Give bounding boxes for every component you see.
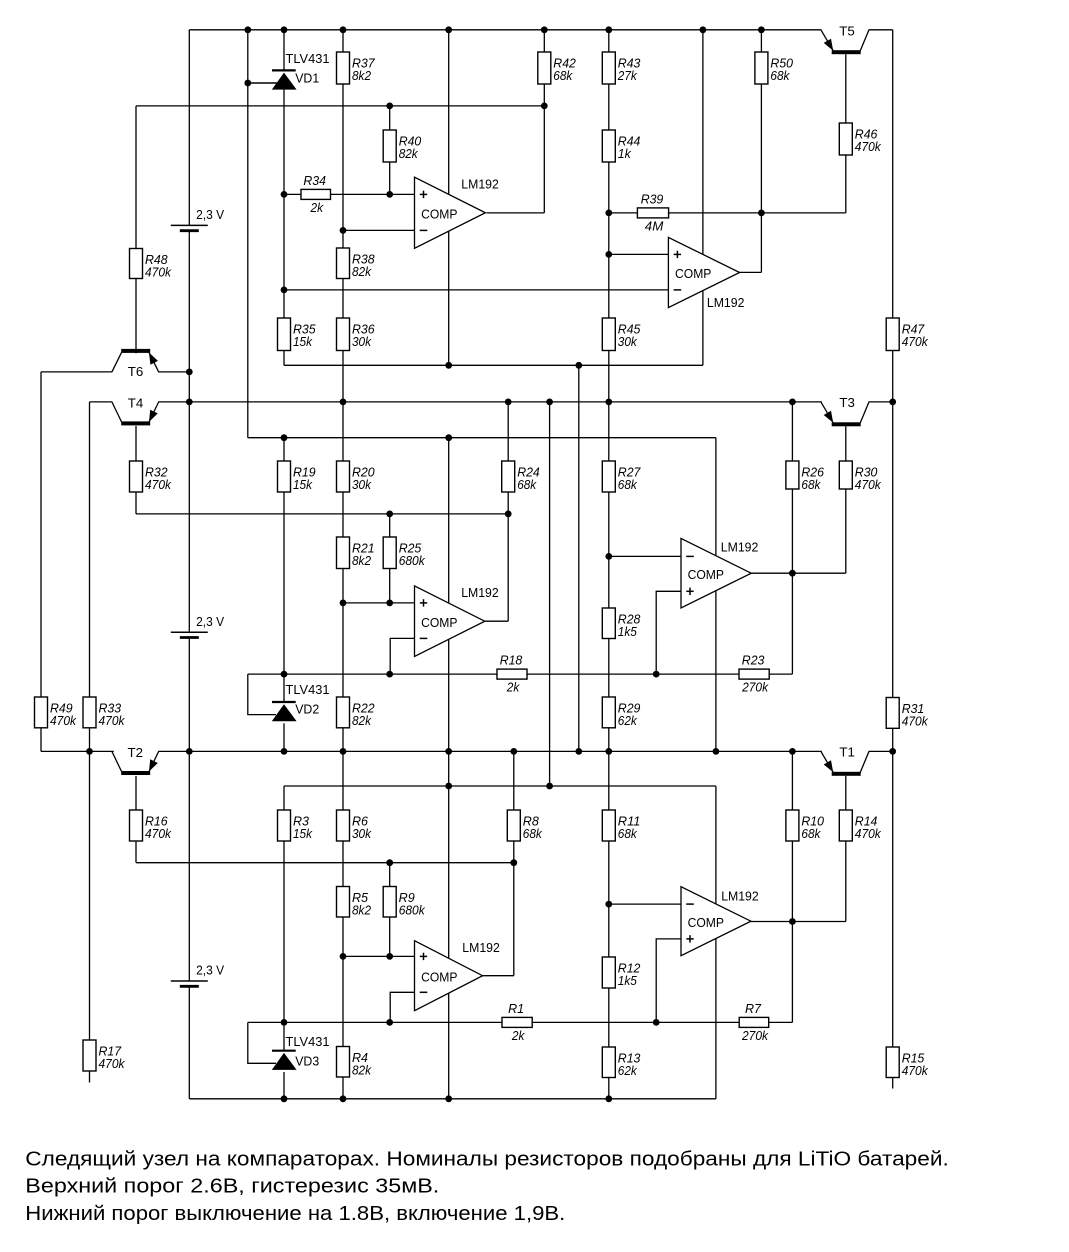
svg-text:470k: 470k: [855, 478, 882, 492]
svg-text:2k: 2k: [310, 201, 324, 215]
wire: COMP2 plus input line: [609, 253, 669, 255]
svg-text:68k: 68k: [770, 69, 790, 83]
wire: COMP bot-right minus input line: [609, 903, 681, 905]
svg-text:30k: 30k: [618, 335, 638, 349]
op-amp comparator U6 (bottom-right LM192): [681, 887, 759, 956]
svg-text:680k: 680k: [399, 554, 426, 568]
resistor R24: [502, 461, 540, 492]
svg-text:T1: T1: [839, 745, 855, 760]
wire: x549 drop (T4 row to bottom feedback line): [549, 402, 551, 786]
wire: reference line y1022 left segment (VD3 net to R1): [248, 1021, 502, 1023]
wire: COMP bot output riser: [513, 863, 515, 976]
junction dots on top bus: [244, 26, 764, 33]
wire: mid feedback drop x716 to T2 row: [715, 438, 717, 752]
junction dots on reference line y674: [281, 671, 660, 678]
junction dots on R39 output node line: [605, 210, 764, 217]
svg-text:8k2: 8k2: [352, 903, 371, 917]
transistor T1: [821, 745, 869, 776]
wire: VD3 anode to ground rail: [283, 1072, 285, 1099]
wire: R27 top from T4 row: [608, 402, 610, 461]
wire: T6 collector stub: [135, 349, 137, 353]
resistor R31: [886, 698, 928, 729]
svg-text:LM192: LM192: [461, 585, 499, 600]
svg-text:68k: 68k: [618, 827, 638, 841]
svg-text:62k: 62k: [618, 714, 638, 728]
resistor R4: [337, 1047, 372, 1078]
junction dot COMP1 minus tap: [340, 227, 347, 234]
resistor R20: [337, 461, 375, 492]
wire: x449 main drop (mid feedback to ground rail): [448, 438, 450, 1099]
svg-text:R34: R34: [303, 174, 326, 188]
junction dots on T2 row: [86, 748, 896, 755]
resistor R38: [337, 248, 375, 279]
resistor R26: [786, 461, 824, 492]
junction dot T6 emitter node: [186, 369, 193, 376]
wire: R16 bottom to y863 corner: [135, 841, 137, 863]
wire: COMP bot-right output line: [751, 921, 846, 923]
wire: R35 bottom into y365 line: [283, 351, 285, 366]
wire: T6 emitter wire to battery column: [158, 371, 189, 373]
svg-text:VD2: VD2: [295, 702, 319, 717]
resistor R48: [130, 249, 172, 280]
resistor R29: [602, 697, 640, 728]
resistor R25: [383, 537, 425, 569]
junction dots on ground rail: [281, 1095, 613, 1102]
wire: top bus right segment to collector rail: [869, 29, 893, 31]
wire: T4 emitter node down to B2: [188, 402, 190, 632]
wire: R46 bottom riser to R39 line: [845, 155, 847, 213]
resistor R43: [602, 52, 640, 84]
wire: R17 bottom stub: [89, 1071, 91, 1083]
wire: COMP mid output riser: [507, 514, 509, 621]
svg-text:470k: 470k: [99, 1057, 126, 1071]
wire: R27 bottom to minus node: [608, 492, 610, 556]
resistor R49: [35, 697, 77, 728]
wire: T4 row (cell 2 +): [158, 401, 822, 403]
resistor R47: [886, 318, 928, 351]
svg-text:COMP: COMP: [688, 567, 724, 582]
wire: R45 bottom to T4 row: [608, 351, 610, 402]
resistor R11: [602, 810, 640, 841]
svg-text:68k: 68k: [801, 827, 821, 841]
wire: COMP1 minus input line: [343, 229, 415, 231]
wire: battery column top (bus corner down to B1): [188, 30, 190, 226]
svg-text:LM192: LM192: [707, 295, 745, 310]
wire: COMP mid minus elbow: [390, 638, 414, 674]
wire: COMP2 output corner riser: [760, 213, 762, 273]
svg-text:2,3 V: 2,3 V: [196, 614, 224, 629]
wire: x579 drop from y365 to T2 row: [578, 365, 580, 751]
svg-text:R39: R39: [641, 192, 664, 206]
wire: T1 base to R14: [845, 776, 847, 810]
resistor R7: [739, 1002, 769, 1043]
resistor R21: [337, 537, 375, 569]
wire: COMP1 plus input line from VD1 anode node: [284, 193, 301, 195]
svg-text:680k: 680k: [399, 903, 426, 917]
wire: T2 collector to R16: [135, 776, 137, 810]
resistor R33: [83, 697, 125, 728]
svg-text:Нижний порог выключение на 1.8: Нижний порог выключение на 1.8В, включен…: [25, 1202, 565, 1225]
wire: COMP bot minus elbow: [390, 992, 414, 1022]
TLV431 shunt reference VD1: [248, 51, 330, 90]
resistor R13: [602, 1047, 640, 1078]
op-amp comparator U2 (top-right LM192): [668, 237, 744, 310]
wire: y514 node line: [136, 513, 508, 515]
wire: T4 collector to R32: [135, 426, 137, 461]
transistor T4: [112, 396, 159, 426]
wire: R34 to COMP1 plus input: [331, 193, 415, 195]
svg-text:8k2: 8k2: [352, 69, 371, 83]
resistor R40: [383, 130, 421, 162]
svg-text:470k: 470k: [145, 478, 172, 492]
wire: node line y105 from R48 column to R42 column: [136, 105, 544, 107]
wire: T4 row right segment (T3 collector to right rail): [869, 401, 893, 403]
junction dot COMP2 plus tap: [605, 251, 612, 258]
wire: y1022 after R7 to corner: [769, 1021, 793, 1023]
svg-text:2k: 2k: [506, 681, 520, 695]
wire: R3 bottom to VD3 cathode node: [283, 841, 285, 1022]
junction dots on y863 node line: [386, 859, 517, 866]
wire: R40 bottom to plus input line: [389, 162, 391, 194]
battery B3 2,3 V: [171, 963, 225, 987]
junction dots on y365 line: [445, 362, 582, 369]
wire: VD1 ref column (bus to ref tap to mid feedback corner): [247, 30, 249, 438]
wire: R8 bottom to output node: [513, 841, 515, 863]
wire: COMP2 output stub: [740, 271, 762, 273]
resistor R27: [602, 461, 641, 492]
wire: R38 bottom to R36 top: [342, 279, 344, 319]
svg-text:2,3 V: 2,3 V: [196, 963, 224, 978]
svg-text:COMP: COMP: [421, 969, 457, 984]
wire: T2 row (cell 3 +): [41, 750, 114, 752]
wire: left rail 1 (T6 base to R49): [40, 372, 42, 697]
svg-text:68k: 68k: [801, 478, 821, 492]
junction dots on COMP mid plus line: [340, 600, 394, 607]
resistor R3: [278, 810, 313, 841]
wire: R4 bottom to ground rail: [342, 1077, 344, 1099]
wire: B3 minus down to ground rail corner: [188, 987, 190, 1099]
wire: R9 bottom to plus line: [389, 917, 391, 956]
resistor R42: [538, 52, 576, 84]
wire: R48 column riser: [135, 106, 137, 249]
wire: T5 base to R46: [845, 54, 847, 123]
wire: R49 bottom corner to T2 row: [40, 728, 42, 752]
wire: R13 bottom to ground rail: [608, 1078, 610, 1099]
wire: COMP1 output to corner: [487, 212, 545, 214]
resistor R34: [301, 174, 331, 215]
svg-text:30k: 30k: [352, 827, 372, 841]
op-amp comparator U1 (top-left LM192): [415, 176, 499, 248]
junction dots on COMP1 plus line: [281, 191, 394, 198]
transistor T6: [112, 349, 159, 379]
svg-text:470k: 470k: [902, 335, 929, 349]
battery B1 2,3 V: [171, 207, 225, 231]
wire: bottom feedback drop x716 to ground rail: [715, 786, 717, 1099]
wire: R5 bottom to plus node to R4 top: [342, 917, 344, 1047]
svg-text:COMP: COMP: [688, 915, 724, 930]
svg-text:470k: 470k: [855, 827, 882, 841]
wire: R30 bottom riser to output line: [845, 489, 847, 573]
resistor R36: [337, 318, 375, 351]
svg-text:VD3: VD3: [295, 1053, 319, 1068]
svg-text:68k: 68k: [523, 827, 543, 841]
wire: R11 top from T2 row: [608, 751, 610, 810]
resistor R50: [755, 52, 793, 84]
svg-text:82k: 82k: [399, 147, 419, 161]
wire: R25 hanger from y514: [389, 514, 391, 537]
wire: T3 base to R30: [845, 426, 847, 461]
wire: right rail T1 node down to R15: [892, 751, 894, 1047]
wire: COMP mid-right plus elbow: [656, 591, 681, 674]
wire: R32 bottom to y514 corner: [135, 492, 137, 514]
wire: minus node to R28 top: [608, 556, 610, 608]
wire: COMP bot-right plus elbow: [656, 939, 681, 1023]
wire: mid feedback top line y437: [248, 437, 716, 439]
svg-text:2,3 V: 2,3 V: [196, 207, 224, 222]
wire: R7 corner riser to output node: [791, 922, 793, 1023]
resistor R23: [739, 654, 769, 695]
wire: R3 top corner from y786: [283, 786, 285, 810]
wire: COMP bot plus input line: [343, 955, 415, 957]
resistor R39: [637, 192, 668, 233]
svg-text:2k: 2k: [511, 1029, 525, 1043]
resistor R22: [337, 697, 375, 728]
transistor T5: [821, 23, 869, 54]
wire: R6 top from T2 row: [342, 751, 344, 810]
resistor R37: [337, 52, 376, 84]
wire: reference line y674 left segment (VD2 net to R18): [248, 673, 497, 675]
wire: R10 hanger from T2 row: [791, 751, 793, 810]
resistor R28: [602, 608, 640, 639]
svg-text:TLV431: TLV431: [286, 1034, 330, 1049]
resistor R30: [839, 461, 881, 492]
wire: T6 base wire to left rail: [41, 371, 112, 373]
wire: R25 bottom to plus line: [389, 569, 391, 603]
op-amp comparator U4 (mid-right LM192): [681, 538, 758, 608]
svg-text:15k: 15k: [293, 827, 313, 841]
svg-text:470k: 470k: [902, 714, 929, 728]
resistor R17: [83, 1040, 125, 1071]
wire: R42 bottom through y105 node to COMP1 output corner: [543, 84, 545, 213]
junction dot COMP2 minus line at VD1 anode chain: [281, 287, 288, 294]
resistor R18: [497, 654, 527, 695]
op-amp comparator U5 (bottom-left LM192): [415, 940, 500, 1011]
wire: right rail T3 node down to R31: [892, 402, 894, 698]
wire: R6 bottom to R5 top: [342, 841, 344, 887]
svg-text:COMP: COMP: [675, 266, 711, 281]
resistor R9: [383, 887, 425, 918]
wire: COMP bot output horizontal: [483, 975, 514, 977]
resistor R1: [502, 1002, 532, 1043]
junction dots on T4 row: [186, 399, 896, 406]
wire: y1022 between R1 and R7: [532, 1021, 739, 1023]
svg-text:27k: 27k: [617, 69, 638, 83]
wire: R26 bottom to output node: [791, 489, 793, 573]
svg-text:COMP: COMP: [421, 206, 457, 221]
resistor R10: [786, 810, 824, 841]
resistor R15: [886, 1047, 928, 1078]
svg-text:LM192: LM192: [461, 176, 499, 191]
junction dots on COMP bot plus line: [340, 953, 394, 960]
op-amp comparator U3 (mid-left LM192): [415, 585, 499, 657]
wire: R33 node down to R17: [89, 751, 91, 1040]
svg-text:68k: 68k: [517, 478, 537, 492]
resistor R35: [278, 318, 316, 351]
resistor R45: [602, 318, 640, 351]
wire: T4 base wire to left rail 2: [90, 401, 113, 403]
wire: COMP mid-right minus input line: [609, 555, 681, 557]
wire: top supply bus (cell 1 +): [189, 29, 821, 31]
svg-text:T3: T3: [839, 395, 855, 410]
wire: x703 riser (bus down to y365 line): [702, 30, 704, 366]
svg-text:15k: 15k: [293, 335, 313, 349]
junction dots on reference line y1022: [281, 1019, 660, 1026]
wire: R50 bottom to R39 output node: [760, 84, 762, 213]
resistor R16: [130, 810, 172, 841]
wire: VD2 anode to T2 row: [283, 723, 285, 751]
svg-text:82k: 82k: [352, 714, 372, 728]
svg-text:270k: 270k: [741, 1029, 769, 1043]
svg-text:82k: 82k: [352, 1063, 372, 1077]
wire: VD1 cathode riser: [283, 30, 285, 71]
svg-text:8k2: 8k2: [352, 554, 371, 568]
wire: R10 bottom to output node: [791, 841, 793, 922]
svg-text:Следящий узел на компараторах.: Следящий узел на компараторах. Номиналы …: [25, 1147, 948, 1170]
wire: COMP mid-right output line: [751, 572, 846, 574]
svg-text:470k: 470k: [855, 140, 882, 154]
wire: bottom feedback line y786: [284, 785, 716, 787]
wire: R37 top lead: [342, 30, 344, 52]
junction dots on bottom feedback line y786: [445, 783, 553, 790]
wire: R9 hanger from y863: [389, 863, 391, 887]
wire: ground rail: [189, 1098, 716, 1100]
transistor T3: [821, 395, 869, 426]
svg-text:VD1: VD1: [295, 71, 319, 86]
wire: T2 row main segment: [158, 750, 822, 752]
wire: R37 bottom to COMP1 minus tap to R38: [342, 84, 344, 248]
wire: R50 top lead: [760, 30, 762, 52]
junction dots on y105 node line: [386, 103, 547, 110]
resistor R44: [602, 130, 640, 162]
junction dot VD1 ref tap: [244, 80, 251, 87]
wire: R15 bottom stub: [892, 1078, 894, 1089]
wire: R24 bottom to output node: [507, 492, 509, 514]
wire: R28 bottom to R29 top: [608, 639, 610, 698]
svg-text:LM192: LM192: [721, 540, 759, 555]
svg-text:LM192: LM192: [462, 940, 500, 955]
resistor R32: [130, 461, 172, 492]
resistor R6: [337, 810, 372, 841]
svg-text:T2: T2: [128, 745, 144, 760]
wire: COMP mid plus input line: [343, 602, 415, 604]
wire: B2 minus down to T2 emitter: [188, 638, 190, 752]
wire: R11 bottom to minus node: [608, 841, 610, 904]
wire: right rail top corner (T5 collector down): [892, 30, 894, 318]
battery B2 2,3 V: [171, 614, 225, 638]
junction dots on y514 node line: [386, 511, 511, 518]
svg-text:R18: R18: [500, 654, 523, 668]
svg-text:T4: T4: [128, 396, 144, 411]
resistor R12: [602, 957, 640, 988]
wire: COMP2 minus input line from VD1 anode chain: [284, 289, 668, 291]
wire: R43 top lead: [608, 30, 610, 52]
svg-text:1k5: 1k5: [618, 974, 637, 988]
wire: R39 left lead from R44 node: [609, 212, 638, 214]
svg-text:470k: 470k: [902, 1064, 929, 1078]
wire: R39 right lead to R50 node and R46 corner: [669, 212, 846, 214]
wire: R19 bottom to VD2 cathode node: [283, 492, 285, 674]
TLV431 shunt reference VD3: [248, 1022, 330, 1070]
svg-text:30k: 30k: [352, 335, 372, 349]
svg-text:COMP: COMP: [421, 615, 457, 630]
svg-text:TLV431: TLV431: [286, 682, 330, 697]
wire: R24 top hanger from T4 row: [507, 402, 509, 461]
wire: right rail R31 to T1 collector node: [892, 728, 894, 751]
svg-text:1k: 1k: [618, 147, 632, 161]
wire: VD3 cathode stub: [283, 1022, 285, 1050]
wire: T2 row right segment: [869, 750, 893, 752]
svg-text:270k: 270k: [741, 681, 769, 695]
resistor R46: [839, 123, 881, 155]
wire: R20 top from T4 row: [342, 402, 344, 461]
wire: y674 after R23 to corner: [769, 673, 792, 675]
TLV431 shunt reference VD2: [248, 674, 330, 721]
transistor T2: [112, 745, 159, 775]
svg-text:68k: 68k: [618, 478, 638, 492]
svg-text:R23: R23: [742, 654, 765, 668]
svg-text:470k: 470k: [145, 265, 172, 279]
wire: COMP mid output horizontal: [485, 620, 508, 622]
svg-text:LM192: LM192: [721, 888, 759, 903]
wire: R26 hanger from T4 row: [791, 402, 793, 461]
wire: R36 bottom to T4 row: [342, 351, 344, 402]
wire: left rail 2 (T4 base to R33): [89, 402, 91, 697]
svg-text:R1: R1: [508, 1002, 524, 1016]
svg-text:1k5: 1k5: [618, 625, 637, 639]
wire: R8 hanger from T2 row: [513, 751, 515, 810]
svg-text:470k: 470k: [50, 714, 77, 728]
wire: B1 minus down to T6/T4 emitters: [188, 231, 190, 402]
svg-text:30k: 30k: [352, 478, 372, 492]
wire: R40 top tap on y105: [389, 106, 391, 130]
svg-text:82k: 82k: [352, 265, 372, 279]
wire: minus node to R12 top: [608, 904, 610, 957]
wire: VD1 anode chain down to R35: [283, 90, 285, 318]
svg-text:62k: 62k: [618, 1064, 638, 1078]
wire: R48 bottom to T6 collector bar: [135, 279, 137, 350]
wire: R22 bottom to T2 row: [342, 728, 344, 752]
wire: right rail R47 to T3 collector node: [892, 351, 894, 402]
junction dot mid-right output node: [789, 570, 796, 577]
wire: R33 bottom to T2 row node: [89, 728, 91, 752]
junction dot bot-right output node: [789, 918, 796, 925]
svg-text:15k: 15k: [293, 478, 313, 492]
svg-text:470k: 470k: [99, 714, 126, 728]
wire: R42 top lead: [543, 30, 545, 52]
junction dot bot-right minus tap: [605, 901, 612, 908]
wire: R14 bottom riser to output line: [845, 841, 847, 922]
wire: R44 bottom through R39 tap and COMP2 plus tap to R45: [608, 162, 610, 318]
wire: R19 hanger from y437: [283, 438, 285, 461]
svg-text:T6: T6: [128, 364, 144, 379]
svg-text:68k: 68k: [553, 69, 573, 83]
junction dots on mid feedback line y437: [281, 434, 453, 441]
resistor R19: [278, 461, 316, 492]
svg-text:4M: 4M: [645, 220, 664, 234]
wire: R20 bottom to R21 top: [342, 492, 344, 537]
wire: VD2 cathode stub: [283, 674, 285, 702]
wire: R12 bottom to R13 top: [608, 988, 610, 1047]
